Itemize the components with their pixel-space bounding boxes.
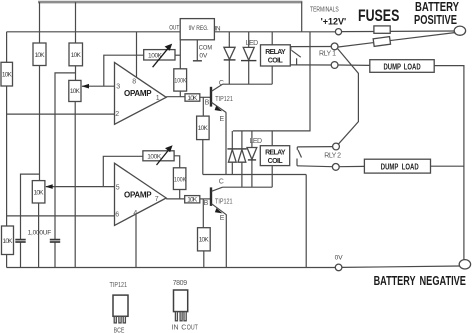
svg-text:10K: 10K <box>198 125 209 132</box>
wire base2 node down to 10K R8 <box>202 199 204 228</box>
wire 100K R6 bottom to output2 node <box>179 190 181 199</box>
svg-text:3: 3 <box>116 83 120 90</box>
wire opamp1 pin8 power from +12V rail <box>136 32 138 77</box>
svg-text:RELAY: RELAY <box>265 149 286 156</box>
svg-text:IN: IN <box>172 324 179 331</box>
svg-text:COIL: COIL <box>268 58 284 65</box>
wire base node down to 10K R5 <box>202 97 204 116</box>
wire +12V supply drop x=310 to row2 rail <box>233 32 310 131</box>
relay contact RLY2 <box>297 147 333 167</box>
wire ground rail3 y=174.5 <box>203 174 306 176</box>
svg-text:RLY 1: RLY 1 <box>319 51 336 58</box>
svg-text:C: C <box>219 80 224 87</box>
wire top rail drop at x=39.5 to R1 <box>39 2 41 43</box>
diode D3 row2 <box>237 149 247 162</box>
transistor Q1 TIP121 <box>205 80 234 123</box>
wire 10K R7 to Q2 base <box>200 198 211 200</box>
svg-text:B: B <box>204 200 209 207</box>
LED2 row2 <box>247 138 262 160</box>
terminal circle RLY1 bottom <box>331 62 338 69</box>
wire opamp1 pin2 from left rail <box>7 113 115 115</box>
wire opamp2 pin6 from left rail <box>7 215 115 217</box>
dump load 2 <box>364 159 430 173</box>
wire below capacitor C2 to ground <box>54 242 56 268</box>
diode D2 row2 <box>227 149 237 162</box>
svg-text:10K: 10K <box>70 88 81 95</box>
wire pot P1 right to rail and 100K R3 top <box>175 54 180 56</box>
svg-text:10K: 10K <box>34 189 45 196</box>
diode D1 <box>224 47 236 60</box>
wire 10K R4 to Q1 base <box>200 96 211 98</box>
wire diode D1 anode from +12V rail <box>228 32 230 48</box>
svg-text:9V REG.: 9V REG. <box>189 26 209 33</box>
battery positive terminal ellipse <box>454 26 465 35</box>
wire fuse F1 to battery positive <box>390 30 454 32</box>
wire 10K R5 bottom down to ground rail3 <box>202 140 204 175</box>
svg-text:LED: LED <box>246 40 259 47</box>
relay coil 1 <box>261 45 291 66</box>
wire opamp2 output to 10K R7 <box>166 198 185 200</box>
resistor R3 100K <box>174 69 187 91</box>
op-amp U1a <box>115 63 167 125</box>
wire diode D2 top from row2 rail <box>231 131 233 149</box>
wire below capacitor C1 to ground <box>20 242 22 268</box>
relay contact RLY1 <box>291 47 331 66</box>
fuse F1 <box>374 26 390 33</box>
svg-text:100K: 100K <box>147 154 162 161</box>
resistor R8 10K <box>198 228 211 251</box>
wire top rail drop at x=75.5 to R2 <box>75 2 77 43</box>
resistor R7 10K <box>185 196 200 204</box>
svg-text:POSITIVE: POSITIVE <box>414 14 457 28</box>
wire VR1 bottom down to ground <box>74 102 76 268</box>
resistor upper-left 10K <box>1 62 13 86</box>
resistor R5 10K <box>197 116 210 140</box>
wire ground rail right of 0V terminal to battery negative <box>342 266 460 267</box>
wire branch from R2/VR1 node to capacitor C2 <box>55 73 76 240</box>
svg-text:IN: IN <box>215 25 221 32</box>
resistor R1 10K <box>33 43 46 66</box>
svg-text:OUT: OUT <box>169 25 180 32</box>
svg-text:COM: COM <box>199 44 212 51</box>
wire opamp1 output to 10K R4 <box>166 96 185 98</box>
package drawing 7809 <box>172 280 198 332</box>
wire dump load2 to battery negative drop <box>431 165 464 167</box>
wire ground rail y=267.5 <box>7 267 336 269</box>
svg-text:FUSES: FUSES <box>358 7 399 25</box>
svg-text:BATTERY: BATTERY <box>374 275 416 289</box>
svg-text:5: 5 <box>116 185 120 192</box>
wire Q2 emitter down to ground <box>225 215 227 268</box>
svg-text:DUMP: DUMP <box>381 161 399 171</box>
svg-text:C: C <box>181 324 186 331</box>
wire Q1 collector rail y=84.2 <box>223 83 273 85</box>
wire diode D2 anode to rail3 <box>231 162 233 174</box>
wire Q2 collector line y=187.2 <box>223 186 273 188</box>
svg-text:RLY 2: RLY 2 <box>324 153 341 160</box>
wire regulator COM lead <box>196 40 198 61</box>
svg-text:NEGATIVE: NEGATIVE <box>420 275 467 289</box>
svg-text:E: E <box>220 116 225 123</box>
battery negative terminal ellipse <box>459 260 470 269</box>
svg-text:OUT: OUT <box>187 324 198 332</box>
svg-text:RELAY: RELAY <box>265 49 286 56</box>
svg-text:COIL: COIL <box>268 158 284 165</box>
wire relay coil1 top from +12V rail <box>271 32 273 45</box>
wire jog from R1 chain to capacitor C1 <box>21 174 40 240</box>
svg-text:OPAMP: OPAMP <box>124 190 152 199</box>
svg-text:10K: 10K <box>3 238 14 245</box>
wire opamp2 pin4 down to ground <box>135 215 137 268</box>
wire RLY1 top contact diagonal through fuse F2 to battery positive <box>338 33 454 47</box>
svg-text:BATTERY: BATTERY <box>415 1 459 15</box>
svg-text:10K: 10K <box>71 52 82 59</box>
wire VR2 node up-right to pot P2 left terminal <box>103 156 143 186</box>
wire LED2 anode from row2 rail <box>251 131 253 148</box>
wire top gray rail <box>38 1 302 4</box>
svg-text:10K: 10K <box>2 72 13 79</box>
terminal circle RLY2 top <box>333 143 340 150</box>
svg-text:10K: 10K <box>187 197 198 204</box>
wire +12V terminal to fuse F1 <box>342 31 374 33</box>
svg-text:100K: 100K <box>174 177 186 184</box>
wire VR1 node up-right to pot P1 left terminal <box>104 55 144 86</box>
svg-text:C: C <box>219 178 224 185</box>
svg-text:10K: 10K <box>199 237 210 244</box>
svg-text:10K: 10K <box>35 52 46 59</box>
wire LED1 cathode to collector rail <box>248 61 250 85</box>
potentiometer P1 100K <box>144 44 175 68</box>
svg-text:'+12V': '+12V' <box>321 16 347 26</box>
op-amp U1b <box>115 163 167 225</box>
wire R2 bottom to preset VR1 top <box>75 66 77 81</box>
wire 10K R8 bottom to ground <box>203 251 205 268</box>
svg-text:2: 2 <box>115 111 119 118</box>
wire dump load1 to battery negative drop <box>434 66 464 260</box>
relay coil 2 <box>260 146 289 166</box>
wire relay coil1 bottom to collector rail <box>271 66 273 84</box>
wire top rail right drop to +12V rail <box>301 2 303 32</box>
svg-text:LOAD: LOAD <box>404 61 421 71</box>
wire RLY2 bottom contact to dump load2 <box>339 165 364 167</box>
wire Q1 emitter down to rail3 <box>225 112 227 174</box>
svg-text:DUMP: DUMP <box>384 61 402 71</box>
ground bar under regulator COM <box>193 60 202 62</box>
svg-text:0V: 0V <box>199 53 208 60</box>
svg-text:TERMINALS: TERMINALS <box>310 6 339 14</box>
svg-text:4: 4 <box>133 210 137 217</box>
wire pot P2 right down to 100K R6 top <box>174 156 180 168</box>
fuse F2 <box>373 37 390 47</box>
wire opamp2 pin5 to VR2 wiper <box>46 186 115 188</box>
svg-text:6: 6 <box>115 211 119 218</box>
wire diode D1 cathode to collector rail <box>228 60 230 84</box>
wire diode D3 top from row2 rail <box>241 131 243 149</box>
capacitor C2 <box>50 240 60 242</box>
wire LED2 cathode to collector2 line <box>251 160 253 187</box>
svg-text:7: 7 <box>155 196 159 203</box>
wire rail3 drop to ground at x=306 <box>305 175 307 268</box>
wire RLY1 bottom contact to dump load1 <box>338 64 370 66</box>
wire VR2 bottom down to ground <box>38 203 40 268</box>
svg-text:TIP121: TIP121 <box>215 96 233 104</box>
package drawing TIP121 <box>110 281 129 333</box>
terminal circle 0V <box>335 264 342 271</box>
wire left rail x=6.6 <box>6 32 8 268</box>
resistor R4 10K <box>185 94 200 102</box>
svg-text:TIP121: TIP121 <box>110 281 128 289</box>
wire R1 bottom down to preset VR2 top <box>39 66 41 181</box>
svg-text:10K: 10K <box>187 95 198 102</box>
wire RLY1 top contact down to RLY2 top contact <box>338 49 359 145</box>
wire relay coil2 bottom to collector2 line <box>271 166 273 188</box>
terminal circle RLY2 bottom <box>332 164 339 171</box>
svg-text:E: E <box>220 215 225 222</box>
svg-text:0V: 0V <box>335 254 344 261</box>
LED1 <box>241 40 258 60</box>
svg-text:100K: 100K <box>174 78 186 85</box>
wire relay coil2 top from row2 rail <box>271 131 273 146</box>
svg-text:8: 8 <box>132 79 136 86</box>
resistor lower-left 10K <box>2 226 14 255</box>
transistor Q2 TIP121 <box>204 178 233 222</box>
wire +12V rail left segment to regulator OUT <box>7 31 181 33</box>
preset VR1 10K with wiper <box>69 80 89 101</box>
wire +12V rail right segment from regulator IN to +12V terminal <box>214 31 335 33</box>
capacitor C1 <box>15 240 25 242</box>
dump load 1 <box>370 60 434 73</box>
svg-text:1,000UF: 1,000UF <box>28 229 52 236</box>
wire LED1 anode from +12V rail <box>248 32 250 48</box>
terminal circle +12V <box>335 29 341 35</box>
potentiometer P2 100K <box>143 145 174 165</box>
wire 100K R3 bottom to output node <box>179 91 181 97</box>
svg-text:B: B <box>205 99 210 106</box>
wire diode D3 anode to collector2 line <box>241 162 243 187</box>
preset VR2 10K with wiper <box>32 181 52 203</box>
terminal circle RLY1 top <box>331 43 338 50</box>
svg-text:LED: LED <box>250 138 263 145</box>
wire opamp1 pin3 to VR1 wiper <box>82 85 115 87</box>
resistor R2 10K <box>69 43 83 66</box>
svg-text:TIP121: TIP121 <box>215 198 233 206</box>
svg-text:1: 1 <box>156 95 160 102</box>
svg-text:7809: 7809 <box>173 280 188 287</box>
resistor R6 100K <box>173 168 186 190</box>
svg-text:LOAD: LOAD <box>402 161 419 171</box>
svg-text:BCE: BCE <box>114 327 125 333</box>
svg-text:OPAMP: OPAMP <box>124 89 152 98</box>
regulator 9V REG box <box>180 19 214 40</box>
